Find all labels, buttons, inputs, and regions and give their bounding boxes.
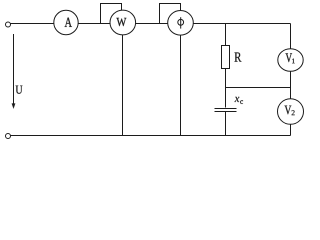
wattmeter W: [110, 10, 136, 35]
phase-meter current-coil bracket: [160, 4, 181, 24]
label: U: [16, 86, 23, 94]
label: R: [235, 53, 242, 62]
wire: branch from top rail to resistor: [225, 24, 227, 47]
phase meter φ: [168, 10, 194, 35]
ammeter A: [54, 10, 78, 34]
terminal: top-left input: [6, 22, 11, 27]
wire: wattmeter voltage-coil dropper: [122, 28, 124, 136]
wattmeter current-coil bracket: [101, 4, 122, 24]
wire: resistor to capacitor: [225, 69, 227, 108]
capacitor Xc: [215, 109, 237, 112]
arrow: applied voltage U: [12, 34, 15, 109]
wire: mid rail (R-Xc node to V1-V2 node): [226, 87, 291, 89]
terminal: bottom-left input: [6, 134, 11, 139]
wire: top rail: [11, 23, 291, 25]
wire: right rail through voltmeters: [290, 24, 292, 136]
wire: bottom rail: [11, 135, 291, 137]
voltmeter V2: [278, 99, 304, 125]
resistor R: [222, 46, 230, 69]
label: Xc: [235, 97, 243, 104]
wire: phase-meter dropper: [180, 28, 182, 136]
wire: capacitor to bottom rail: [225, 112, 227, 136]
voltmeter V1: [278, 49, 303, 72]
